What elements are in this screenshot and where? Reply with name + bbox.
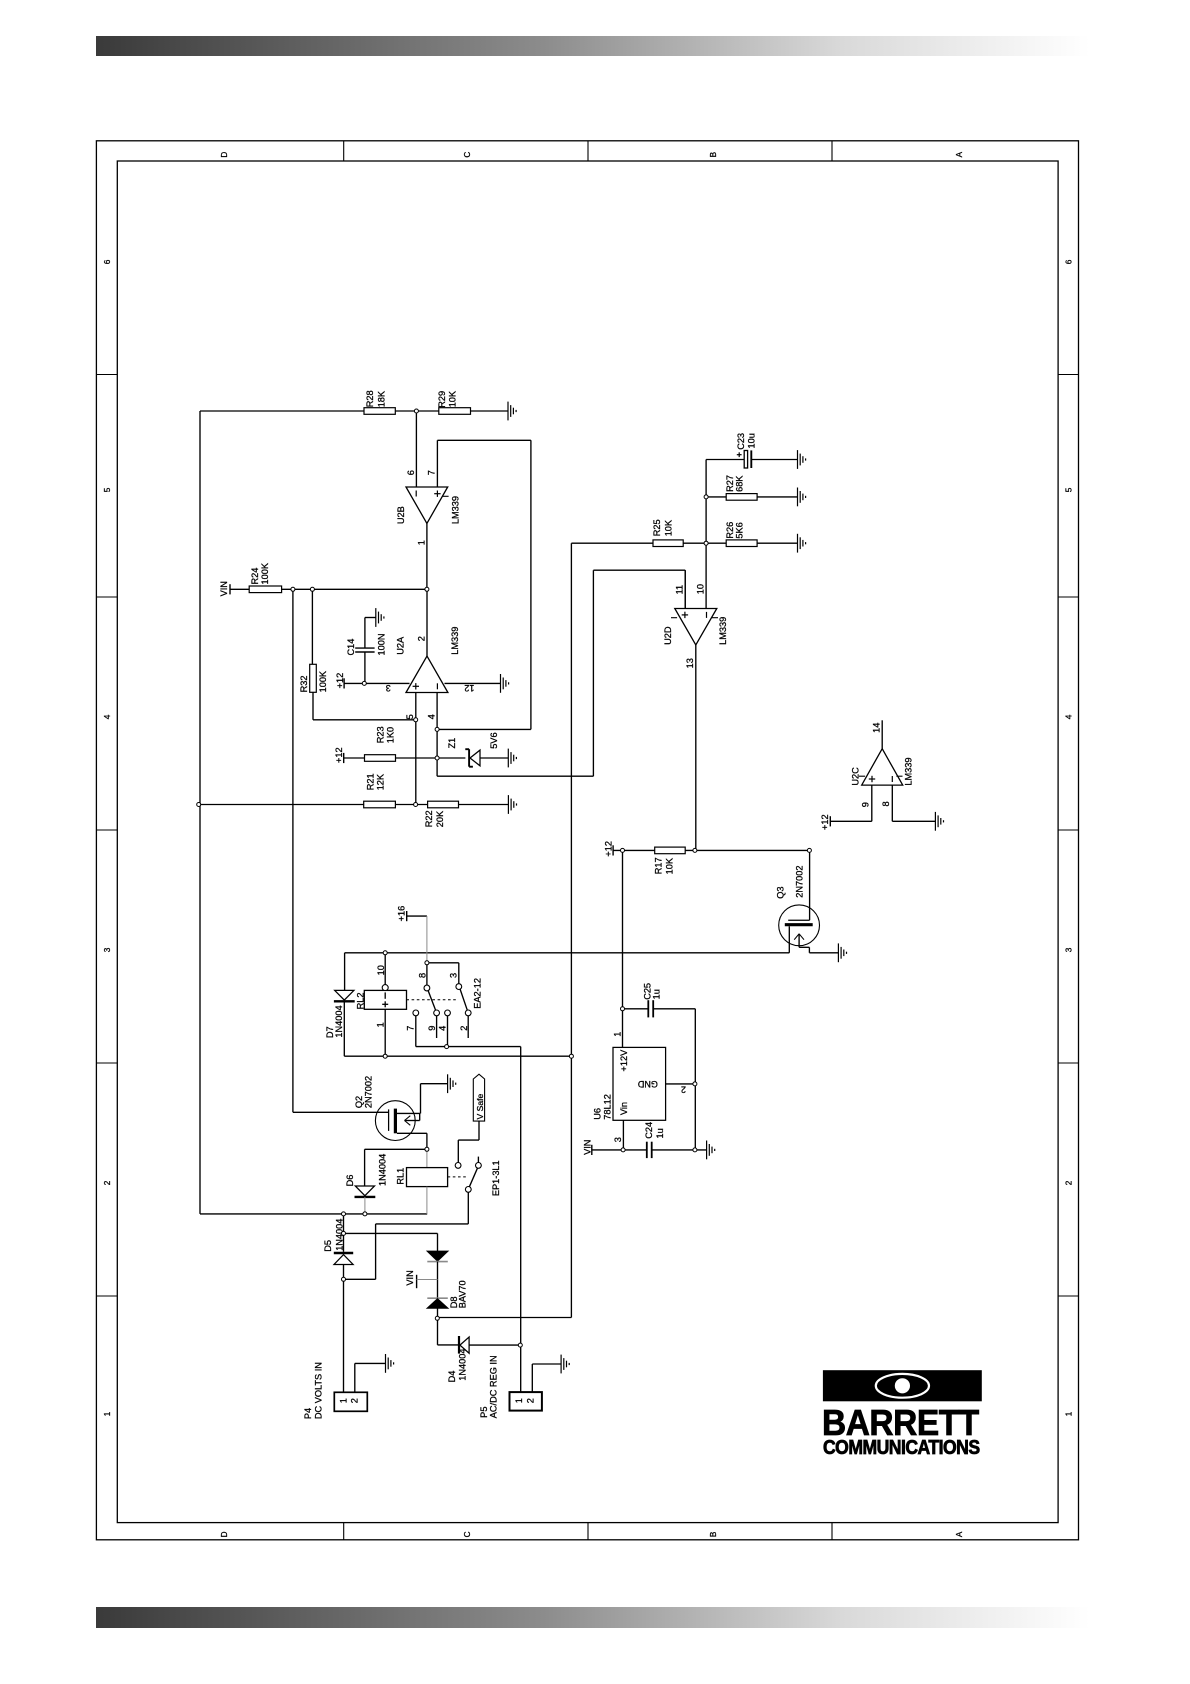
svg-text:D6: D6	[345, 1175, 355, 1187]
svg-text:9: 9	[860, 802, 870, 807]
svg-text:U2D: U2D	[663, 626, 673, 645]
svg-text:10K: 10K	[664, 857, 674, 874]
svg-text:8: 8	[418, 973, 428, 978]
svg-text:2N7002: 2N7002	[794, 866, 804, 898]
svg-text:+12: +12	[604, 841, 614, 857]
svg-text:10K: 10K	[448, 390, 458, 407]
svg-text:11: 11	[675, 585, 685, 595]
svg-text:D5: D5	[323, 1240, 333, 1252]
svg-text:VIN: VIN	[219, 581, 229, 596]
svg-text:3: 3	[386, 683, 391, 693]
svg-text:U6: U6	[592, 1108, 602, 1120]
svg-text:20K: 20K	[435, 810, 445, 827]
svg-text:R28: R28	[365, 390, 375, 407]
svg-text:5: 5	[1065, 487, 1074, 492]
svg-text:2: 2	[350, 1398, 360, 1403]
svg-text:LM339: LM339	[450, 496, 460, 524]
svg-text:EA2-12: EA2-12	[473, 978, 483, 1009]
svg-text:1u: 1u	[652, 989, 662, 999]
svg-text:3: 3	[1065, 947, 1074, 952]
svg-text:U2B: U2B	[396, 506, 406, 524]
svg-text:B: B	[709, 151, 718, 157]
svg-text:R26: R26	[725, 522, 735, 539]
svg-text:R22: R22	[424, 810, 434, 827]
svg-text:13: 13	[685, 658, 695, 668]
svg-text:2: 2	[103, 1180, 112, 1185]
svg-text:+12V: +12V	[619, 1049, 629, 1072]
svg-text:A: A	[955, 1531, 964, 1537]
svg-text:EP1-3L1: EP1-3L1	[491, 1160, 501, 1196]
svg-text:1u: 1u	[655, 1128, 665, 1138]
svg-text:VIN: VIN	[583, 1140, 593, 1155]
svg-text:B: B	[709, 1531, 718, 1537]
svg-text:7: 7	[406, 1026, 416, 1031]
svg-text:C23: C23	[736, 433, 746, 450]
svg-text:R23: R23	[375, 726, 385, 743]
svg-text:9: 9	[427, 1026, 437, 1031]
svg-text:Q2: Q2	[354, 1096, 364, 1108]
svg-text:R17: R17	[654, 857, 664, 874]
svg-text:1: 1	[376, 1022, 386, 1027]
svg-text:12: 12	[464, 683, 474, 693]
svg-text:2: 2	[525, 1398, 535, 1403]
svg-text:Z1: Z1	[447, 738, 457, 749]
svg-text:1: 1	[103, 1411, 112, 1416]
svg-text:12K: 12K	[375, 773, 385, 790]
svg-text:2: 2	[1065, 1180, 1074, 1185]
svg-text:Vin: Vin	[619, 1102, 629, 1115]
svg-text:4: 4	[426, 714, 436, 719]
svg-text:7: 7	[427, 470, 437, 475]
svg-text:8: 8	[881, 801, 891, 806]
svg-text:6: 6	[406, 470, 416, 475]
svg-text:14: 14	[871, 723, 881, 733]
svg-text:4: 4	[438, 1026, 448, 1031]
svg-text:V Safe: V Safe	[475, 1093, 485, 1119]
svg-text:R29: R29	[437, 391, 447, 408]
svg-text:3: 3	[613, 1137, 623, 1142]
svg-text:C24: C24	[644, 1122, 654, 1139]
svg-text:1N4004: 1N4004	[458, 1349, 468, 1381]
svg-text:2: 2	[459, 1026, 469, 1031]
svg-text:1K0: 1K0	[386, 727, 396, 743]
svg-text:1: 1	[416, 540, 426, 545]
svg-text:U2A: U2A	[396, 636, 406, 655]
svg-text:78L12: 78L12	[603, 1094, 613, 1120]
svg-text:R25: R25	[652, 519, 662, 536]
svg-text:R32: R32	[299, 676, 309, 693]
svg-text:LM339: LM339	[718, 617, 728, 645]
svg-text:D: D	[220, 152, 229, 158]
svg-text:1: 1	[613, 1032, 623, 1037]
svg-text:VIN: VIN	[405, 1270, 415, 1285]
svg-text:+12: +12	[820, 814, 830, 830]
svg-text:10: 10	[376, 965, 386, 975]
svg-text:4: 4	[103, 714, 112, 719]
svg-text:RL1: RL1	[396, 1168, 406, 1185]
svg-text:LM339: LM339	[450, 627, 460, 655]
svg-text:U2C: U2C	[850, 767, 860, 786]
svg-text:4: 4	[1065, 714, 1074, 719]
svg-text:C14: C14	[346, 639, 356, 656]
svg-text:100N: 100N	[376, 634, 386, 656]
svg-text:R21: R21	[366, 773, 376, 790]
svg-text:R24: R24	[250, 568, 260, 585]
svg-text:2N7002: 2N7002	[364, 1076, 374, 1108]
svg-text:+12: +12	[334, 747, 344, 763]
svg-text:100K: 100K	[318, 670, 328, 692]
svg-text:3: 3	[448, 973, 458, 978]
svg-text:6: 6	[103, 259, 112, 264]
svg-text:D4: D4	[447, 1371, 457, 1383]
svg-text:18K: 18K	[376, 390, 386, 407]
svg-text:1: 1	[1065, 1411, 1074, 1416]
svg-text:GND: GND	[637, 1079, 658, 1089]
svg-text:10: 10	[696, 584, 706, 594]
svg-text:DC VOLTS IN: DC VOLTS IN	[314, 1362, 324, 1419]
svg-text:10u: 10u	[747, 433, 757, 448]
svg-text:100K: 100K	[260, 562, 270, 584]
svg-text:2: 2	[681, 1085, 686, 1095]
svg-text:1: 1	[514, 1398, 524, 1403]
svg-text:5V6: 5V6	[489, 732, 499, 748]
svg-text:+12: +12	[335, 673, 345, 689]
svg-text:A: A	[955, 151, 964, 157]
svg-text:P4: P4	[303, 1408, 313, 1419]
svg-text:D: D	[220, 1531, 229, 1537]
svg-text:10K: 10K	[664, 519, 674, 536]
svg-text:+16: +16	[396, 906, 406, 922]
svg-text:1N4004: 1N4004	[378, 1154, 388, 1186]
svg-text:1N4004: 1N4004	[334, 1005, 344, 1037]
svg-text:C: C	[463, 152, 472, 158]
svg-text:RL2: RL2	[355, 993, 365, 1010]
svg-text:BAV70: BAV70	[457, 1280, 467, 1308]
svg-text:6: 6	[1065, 259, 1074, 264]
svg-text:C: C	[463, 1531, 472, 1537]
svg-text:Q3: Q3	[775, 886, 785, 898]
svg-text:68K: 68K	[735, 475, 745, 492]
svg-text:1: 1	[339, 1398, 349, 1403]
svg-text:R27: R27	[725, 475, 735, 492]
svg-text:5: 5	[103, 487, 112, 492]
svg-text:3: 3	[103, 947, 112, 952]
svg-text:5K6: 5K6	[735, 522, 745, 538]
svg-text:LM339: LM339	[903, 758, 913, 786]
svg-text:AC/DC REG IN: AC/DC REG IN	[489, 1355, 499, 1418]
svg-text:2: 2	[417, 636, 427, 641]
